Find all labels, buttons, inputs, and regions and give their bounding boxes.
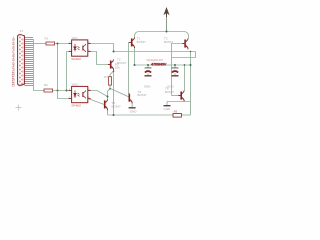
wire opto1 collector to T2 collector <box>88 44 114 52</box>
svg-text:2: 2 <box>69 50 70 52</box>
power VCC arrow symbol <box>163 7 169 17</box>
transistor T4 <box>129 90 148 104</box>
wire right detour box <box>172 52 196 58</box>
svg-text:R7: R7 <box>104 75 108 79</box>
wire opto1 emitter to T2 base <box>88 52 110 65</box>
wire VCC rail top with rounded bends <box>135 32 189 39</box>
wire T6 collector vertical <box>184 65 186 91</box>
wire long net y=51.5 <box>114 51 196 53</box>
wire T2 emitter jog to R5 <box>110 71 114 77</box>
wire T1 base vertical long to T4 <box>128 43 130 95</box>
transistor T5 <box>104 99 121 110</box>
svg-text:BC547: BC547 <box>112 105 122 109</box>
ground under T4 <box>129 108 138 114</box>
optocoupler OK1 <box>71 36 88 61</box>
opto pin stubs OK1 <box>69 44 91 52</box>
svg-text:4700/40V: 4700/40V <box>151 62 167 67</box>
wire R2 to opto2 anode <box>53 90 72 92</box>
svg-text:R1: R1 <box>45 37 49 41</box>
wire VCC stem <box>166 15 168 32</box>
wire T2 emitter long vertical <box>113 70 115 115</box>
node junction dots <box>57 31 192 117</box>
svg-text:SFH618: SFH618 <box>71 103 81 107</box>
svg-text:OK2: OK2 <box>72 82 78 86</box>
wire R5 bottom to T5 collector <box>108 85 111 99</box>
wire cap C1 stubs <box>147 65 149 76</box>
frame origin cross <box>16 105 22 111</box>
svg-text:3: 3 <box>88 97 89 99</box>
wire vertical link x=57.5 <box>57 44 59 91</box>
svg-text:10k: 10k <box>115 66 120 70</box>
opto OK1 pin numbers <box>69 42 89 52</box>
wire T6 emitter to gnd run <box>167 101 191 102</box>
wire T5 emitter to bottom rail <box>107 110 109 115</box>
optocoupler OK2 <box>71 82 88 107</box>
transistor T3 <box>164 37 188 50</box>
svg-text:BC547: BC547 <box>165 90 175 94</box>
wire opto1 cathode down <box>67 52 72 91</box>
svg-text:OK1: OK1 <box>72 36 78 40</box>
wire T3 base with corner down <box>172 44 185 96</box>
wire bottom rail left <box>108 114 174 116</box>
wire opto2 collector diagonal D1 <box>88 91 108 97</box>
wire connector pin to R1 <box>33 43 46 45</box>
ground under C1 <box>144 76 152 89</box>
wire connector pin down to R2 <box>33 40 44 91</box>
wire mid rail y=65 <box>135 64 191 66</box>
svg-text:GND: GND <box>144 85 152 89</box>
wire opto2 emitter diagonal D2 to T5 base <box>88 99 104 105</box>
opto pin stubs OK2 <box>69 91 91 99</box>
wire cap C2 stubs <box>174 65 176 76</box>
svg-text:BC547: BC547 <box>138 93 148 97</box>
wire opto2 cathode to node <box>58 91 72 99</box>
svg-text:GND: GND <box>167 85 175 89</box>
wire R1 to opto1 anode <box>55 43 72 45</box>
wire T1 emitter vertical <box>134 48 136 65</box>
svg-text:R9: R9 <box>174 110 178 114</box>
capacitor C1 <box>145 68 152 73</box>
svg-text:1: 1 <box>69 42 70 44</box>
transistor T2 <box>108 57 127 70</box>
svg-text:BC547: BC547 <box>137 40 147 44</box>
svg-text:4: 4 <box>88 42 89 44</box>
ground near T6 <box>164 106 172 112</box>
svg-text:BC547: BC547 <box>117 61 127 65</box>
wire T6 base stub <box>172 95 181 97</box>
svg-text:GR-ELKO-470: GR-ELKO-470 <box>147 59 164 62</box>
capacitor C2 <box>172 68 179 73</box>
svg-text:4: 4 <box>88 89 89 91</box>
resistor R9 bottom right <box>173 110 181 118</box>
transistor T6 <box>165 87 184 102</box>
svg-text:R2: R2 <box>44 83 48 87</box>
svg-text:1: 1 <box>69 89 70 91</box>
svg-text:2: 2 <box>69 97 70 99</box>
transistor T1 <box>129 37 146 49</box>
wire T6 gnd stub <box>166 102 168 106</box>
wire bottom rail right to R9 <box>181 114 190 116</box>
wire T1 base stub <box>129 42 131 44</box>
resistor R5 vertical <box>104 62 120 85</box>
wire T4 emitter to gnd <box>131 103 133 108</box>
connector X1 DB25 <box>12 29 33 88</box>
resistor R2 <box>44 83 53 92</box>
svg-text:BC547: BC547 <box>164 40 174 44</box>
svg-text:X1: X1 <box>20 29 24 33</box>
svg-text:GND: GND <box>164 107 172 111</box>
ground under C2 <box>167 76 179 89</box>
svg-text:SFH618: SFH618 <box>71 57 81 61</box>
wire right long vertical x=190 <box>190 52 192 116</box>
wire diagonal D3 to T4 base <box>110 88 130 97</box>
opto OK2 pin numbers <box>69 89 89 99</box>
svg-text:GND: GND <box>130 110 138 114</box>
resistor R1 <box>45 37 55 45</box>
svg-text:3: 3 <box>88 50 89 52</box>
